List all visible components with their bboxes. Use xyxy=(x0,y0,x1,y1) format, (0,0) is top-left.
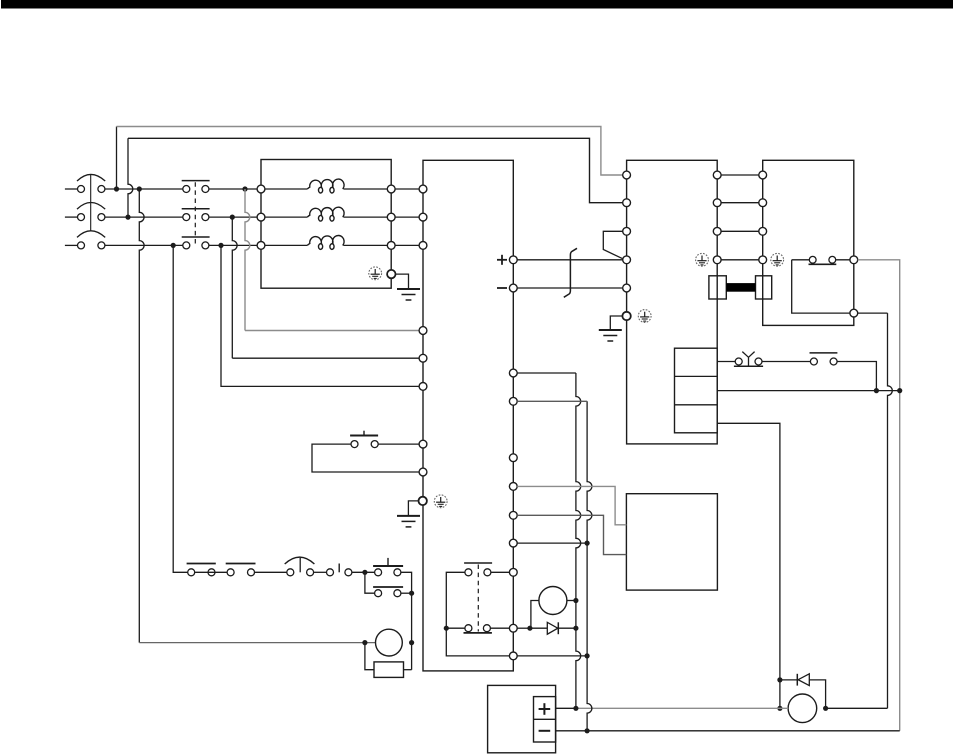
node brake coil right xyxy=(409,640,414,645)
wire relay coil left xyxy=(531,601,539,629)
wire fan feedback xyxy=(717,390,900,392)
relay coil RY xyxy=(539,587,567,615)
drive input terminals left xyxy=(419,185,427,476)
node minus tap B xyxy=(585,653,590,658)
wire chain a xyxy=(195,571,227,573)
wire row2 contactor-reactor xyxy=(209,216,257,218)
relay diode xyxy=(531,622,576,634)
shield clamp left xyxy=(709,276,726,299)
inductor L1c xyxy=(307,235,344,249)
servo drive box U1 xyxy=(423,160,513,671)
node row3 tap B xyxy=(218,243,223,248)
wire 24V minus dropper xyxy=(517,401,592,731)
wire aux NC row xyxy=(446,627,509,629)
shield clamp right xyxy=(756,276,772,299)
latch aux contact xyxy=(373,587,403,597)
wire L2 top bus xyxy=(128,138,623,202)
node relay diode right xyxy=(573,626,578,631)
wire brake control dropper xyxy=(717,423,780,708)
servo-on pushbutton contacts xyxy=(351,441,378,448)
AC reactor box xyxy=(261,160,391,289)
node row1 tap B xyxy=(137,186,142,191)
wire relay feed xyxy=(517,627,531,629)
wires reactor to drive xyxy=(395,189,419,245)
contactor KM1 linkage dashed xyxy=(194,182,196,245)
reactor earth wire xyxy=(396,274,409,288)
wire servo-on loop xyxy=(312,444,419,472)
wire battery plus xyxy=(556,707,789,709)
thermal protector contact xyxy=(734,352,763,367)
node fan junction A xyxy=(874,388,879,393)
stop button 2 xyxy=(226,564,256,576)
wire row2 breaker-contactor xyxy=(105,216,183,218)
wire dropper row2 to L2 terminal xyxy=(232,217,419,358)
node fan junction B xyxy=(897,388,902,393)
stop button 1 xyxy=(187,564,216,576)
node row3 tap A xyxy=(171,243,176,248)
wire drive aux2 xyxy=(517,655,587,657)
drive earth ground xyxy=(397,516,420,527)
battery terminal block xyxy=(534,697,556,742)
wire servo-on right xyxy=(378,443,419,445)
inductor L1b xyxy=(307,207,344,221)
wire dropper row3 to control chain xyxy=(173,245,188,572)
reactor terminals xyxy=(257,185,395,249)
cable marker slash xyxy=(564,248,577,297)
top title bar xyxy=(1,0,953,9)
converter earth wire xyxy=(610,316,622,329)
wire drive aux1 xyxy=(517,542,587,544)
label plus xyxy=(497,255,507,265)
reactor earth ground xyxy=(397,289,420,300)
converter terminals right xyxy=(713,171,721,264)
converter earth ground xyxy=(599,330,622,341)
battery minus label xyxy=(539,730,551,732)
aux contactor NO contact xyxy=(464,563,492,576)
converter PE terminal xyxy=(622,312,630,320)
node row1 tap A xyxy=(114,186,119,191)
limit switch contact xyxy=(327,564,352,576)
node brake diode left xyxy=(777,677,782,682)
NC contact xyxy=(810,353,838,365)
drive earth wire xyxy=(408,501,418,515)
wire aux to terminal xyxy=(446,628,509,656)
motor thermostat loop xyxy=(792,260,850,313)
motor terminals left xyxy=(759,171,767,264)
wire N bus xyxy=(517,287,623,289)
wire L1 top bus xyxy=(117,127,623,176)
node row2 tap xyxy=(125,215,130,220)
wire chain b xyxy=(255,571,287,573)
wire L2 tap riser with hop over row1 xyxy=(128,138,133,217)
wire encoder A xyxy=(517,486,626,524)
aux contactor NC contact xyxy=(464,625,492,633)
shield bar xyxy=(726,283,755,292)
reactor internal wires xyxy=(265,189,387,245)
wire bottom bus xyxy=(556,730,900,732)
wire latch right xyxy=(401,592,412,594)
reactor PE terminal xyxy=(387,270,395,278)
node chain branch xyxy=(362,570,367,575)
wire chain c xyxy=(314,571,327,573)
node row2 tap B xyxy=(230,215,235,220)
brake coil Y xyxy=(788,694,817,723)
drive PE terminal xyxy=(419,497,427,505)
node relay left xyxy=(527,626,532,631)
wire aux NO right xyxy=(491,571,510,573)
drive terminals right xyxy=(509,256,517,660)
motor thermostat contacts xyxy=(809,256,837,264)
cable PE icon left xyxy=(696,253,709,266)
node relay coil right xyxy=(573,598,578,603)
motor box M xyxy=(763,160,854,325)
wire row1 breaker-contactor xyxy=(105,188,183,190)
motor cable wires xyxy=(721,175,759,260)
wire aux NO left loop xyxy=(446,572,465,628)
converter terminals left xyxy=(623,171,631,292)
wire thermostat top to bottom bus xyxy=(858,260,900,731)
drive PE icon xyxy=(434,495,447,508)
converter box U2 xyxy=(627,160,718,444)
servo-on pushbutton actuator xyxy=(350,431,378,436)
breaker mechanical tie xyxy=(90,175,92,231)
wire chain e xyxy=(401,572,412,669)
wire chain d xyxy=(352,571,375,573)
start pushbutton xyxy=(373,558,403,576)
circuit breaker QF1 (3-pole) xyxy=(65,174,105,249)
wire L1 tap riser xyxy=(116,127,118,190)
wire dropper from row1 tap B to brake feed xyxy=(139,189,375,643)
inductor L1a xyxy=(307,179,344,193)
converter PE icon xyxy=(638,310,651,323)
node minus tap A xyxy=(585,541,590,546)
wire cooling fan circuit xyxy=(717,362,876,391)
connector cell block xyxy=(675,348,718,433)
node brake left xyxy=(777,706,782,711)
node battery minus junction xyxy=(585,728,590,733)
label minus xyxy=(497,287,507,289)
reactor PE icon xyxy=(369,267,382,280)
economy resistor xyxy=(374,662,404,678)
contactor KM1 main contacts xyxy=(182,181,210,249)
wire P bus xyxy=(517,259,623,261)
wire 24V plus dropper xyxy=(517,373,581,708)
wire resistor left xyxy=(365,643,374,670)
node row1 tap C xyxy=(242,186,247,191)
battery box GB xyxy=(488,685,556,752)
wire row3 breaker-contactor xyxy=(105,244,183,246)
wire relay coil right xyxy=(567,600,576,602)
wire thermostat bottom to brake xyxy=(826,313,893,708)
node latch junction xyxy=(409,591,414,596)
aux contactor linkage dashed xyxy=(477,565,479,632)
wire dropper row3 to L3 terminal xyxy=(221,245,419,386)
P1-P jumper xyxy=(603,231,623,258)
wire latch branch xyxy=(365,572,375,593)
wire encoder B xyxy=(517,515,626,554)
node aux junction xyxy=(444,626,449,631)
brake flyback diode xyxy=(780,674,826,709)
cable PE icon right xyxy=(771,253,784,266)
overload relay contact xyxy=(285,557,315,576)
wire row3 contactor-reactor xyxy=(209,244,257,246)
node brake coil left xyxy=(362,640,367,645)
encoder box xyxy=(626,494,717,590)
wire resistor right xyxy=(404,669,412,671)
wire row1 contactor-reactor xyxy=(209,188,257,190)
motor terminal TH1 xyxy=(850,256,858,264)
node brake right xyxy=(823,706,828,711)
node battery plus junction xyxy=(573,706,578,711)
wire dropper row1 to L1 terminal xyxy=(245,189,419,331)
brake relay coil BR xyxy=(376,629,403,656)
motor terminal TH2 xyxy=(850,309,858,317)
battery plus label xyxy=(539,703,551,715)
